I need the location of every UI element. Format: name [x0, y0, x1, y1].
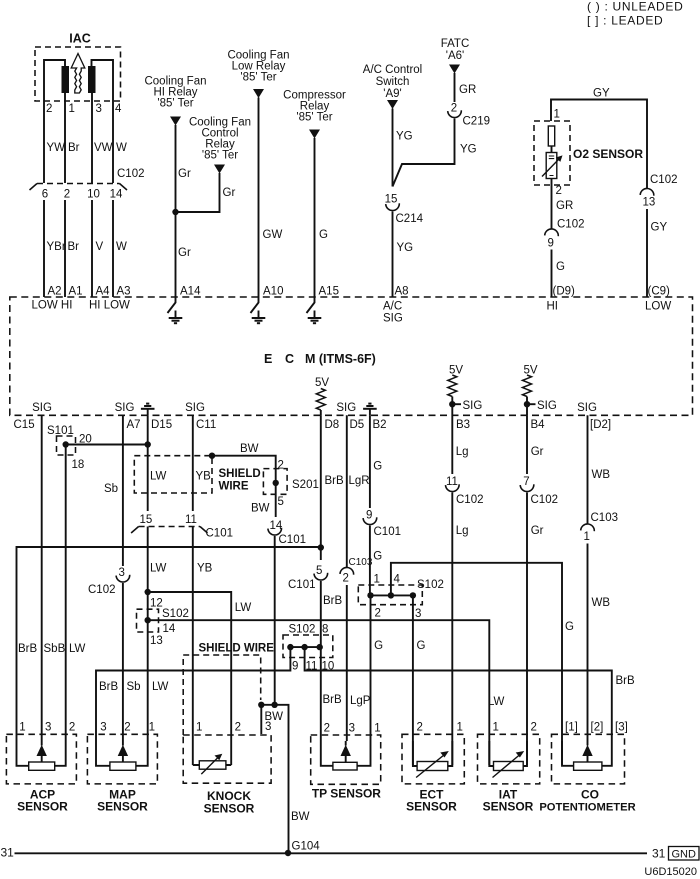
junction Gr wires: [172, 209, 178, 215]
svg-text:3: 3: [96, 103, 102, 115]
wire color Sb: [104, 483, 118, 495]
ECT sensor box: [402, 734, 464, 784]
S201 pin 5: [278, 496, 284, 508]
CO pot pin 1: [565, 722, 578, 734]
ECM pin (D9): [553, 286, 576, 298]
wire YG from A/C switch: [392, 109, 394, 187]
svg-text:2: 2: [451, 103, 457, 115]
svg-text:S102: S102: [162, 608, 189, 620]
IAC pin 4: [115, 103, 122, 115]
wire GR from FATC: [454, 73, 456, 102]
svg-text:BrB: BrB: [323, 595, 343, 607]
wire YG from C214 to A8: [392, 212, 394, 298]
svg-text:A10: A10: [263, 286, 283, 298]
junction S102-11: [301, 644, 307, 650]
wire color BrB (CO): [616, 675, 636, 687]
IAT sensor pin 1: [493, 722, 499, 734]
splice S101 label: [47, 425, 74, 437]
junction D15/S101-20: [145, 441, 151, 447]
wire LgP C103-2 to TP pin 3: [346, 585, 348, 741]
wire shield stub to knock box: [260, 705, 262, 734]
ECM pin (C9): [648, 286, 671, 298]
wire Lg from B3: [451, 415, 453, 474]
connector C101 inline: [131, 527, 207, 534]
connector C219: [448, 110, 462, 117]
wire color YG to A8: [397, 242, 414, 254]
svg-text:14: 14: [163, 623, 176, 635]
wire color Br: [68, 142, 80, 154]
svg-text:C101: C101: [374, 526, 402, 538]
Cooling Fan Low Relay text: [227, 50, 289, 62]
ECM D5 SIG: [336, 402, 356, 414]
svg-text:A2: A2: [48, 286, 62, 298]
C102 pin 2: [64, 189, 70, 201]
wire W to ECM A3: [112, 200, 114, 297]
svg-text:C102: C102: [456, 494, 484, 506]
splice S201 label: [292, 479, 319, 491]
shield box around knock wires: [183, 655, 261, 735]
connector C219 pin 2: [451, 103, 457, 115]
ACP sensor element: [17, 741, 66, 770]
IAC label: [69, 32, 91, 46]
wire color LW (MAP): [152, 681, 169, 693]
junction S102-4: [388, 592, 394, 598]
wire YG from C219 to junction: [393, 119, 455, 187]
ECM title: [264, 352, 272, 366]
svg-text:2: 2: [531, 722, 537, 734]
svg-text:2: 2: [46, 103, 52, 115]
ECM C15 SIG: [32, 402, 52, 414]
svg-text:LOW HI: LOW HI: [32, 300, 73, 312]
svg-text:CO: CO: [581, 788, 599, 802]
svg-text:11: 11: [446, 476, 458, 488]
ECM module box: [10, 297, 693, 415]
wire color G (B2): [373, 461, 382, 473]
svg-text:(D9): (D9): [553, 286, 576, 298]
ECM D2 SIG: [577, 402, 597, 414]
ground inside ECM at A14: [168, 297, 183, 323]
junction S102-LW: [145, 617, 151, 623]
ECT sensor element: [413, 741, 452, 778]
arrow from Compressor Relay: [309, 130, 320, 139]
svg-text:'A9': 'A9': [383, 88, 401, 100]
wire color LW (IAT): [488, 696, 505, 708]
TP sensor pin 2: [324, 723, 330, 735]
splice S102 label (LW): [162, 608, 189, 620]
wire color LW (knock): [235, 602, 252, 614]
wire color GW: [263, 229, 283, 241]
svg-text:GR: GR: [459, 84, 476, 96]
O2 sensor box: [534, 121, 570, 185]
svg-text:LgR: LgR: [349, 475, 370, 487]
wire BrB C101-5 to TP pin 2: [320, 581, 322, 741]
5V supply at B3: [449, 365, 463, 377]
svg-text:HI LOW: HI LOW: [89, 300, 130, 312]
svg-text:'85' Ter: '85' Ter: [240, 72, 276, 84]
IAT sensor pin 2: [531, 722, 537, 734]
wire color BrB below C101: [323, 595, 343, 607]
svg-text:LW: LW: [150, 471, 167, 483]
wire color YB below C101: [197, 563, 213, 575]
svg-text:U6D15020: U6D15020: [644, 866, 697, 878]
MAP sensor pin 2: [124, 722, 130, 734]
ECM pin A1: [69, 286, 83, 298]
wire color G (ECT): [417, 640, 426, 652]
svg-text:9: 9: [366, 510, 372, 522]
wire color G (O2 HI): [556, 261, 565, 273]
connector C101 label: [206, 528, 234, 540]
GND box: [669, 847, 700, 861]
connector C101 pin 11: [185, 514, 197, 526]
svg-text:A8: A8: [395, 286, 409, 298]
svg-text:15: 15: [140, 514, 153, 526]
wire color SbB: [44, 643, 66, 655]
svg-text:Lg: Lg: [456, 525, 469, 537]
knock sensor box: [183, 735, 271, 783]
ECM pin D8: [325, 419, 340, 431]
svg-text:YB: YB: [196, 471, 212, 483]
svg-text:Gr: Gr: [531, 525, 544, 537]
C102 pin 6: [42, 189, 48, 201]
CO POTENTIOMETER label: [581, 788, 599, 802]
Cooling Fan Control Relay text: [189, 117, 251, 129]
wire LW S102-14 to IAT pin 1: [148, 620, 490, 765]
ECM pin A3: [117, 286, 131, 298]
svg-text:M (ITMS-6F): M (ITMS-6F): [305, 352, 376, 366]
MAP sensor element: [96, 741, 148, 770]
wire Gr C102-7 to IAT pin 2: [526, 493, 528, 766]
O2 sensor heater resistor: [548, 126, 554, 153]
svg-text:LW: LW: [150, 563, 167, 575]
Cooling Fan HI Relay text: [144, 76, 206, 88]
svg-text:SIG: SIG: [336, 402, 356, 414]
ECT SENSOR label: [420, 788, 445, 802]
svg-text:5: 5: [316, 565, 322, 577]
svg-text:1: 1: [554, 109, 560, 121]
svg-text:2: 2: [124, 722, 130, 734]
svg-text:'85' Ter: '85' Ter: [296, 112, 332, 124]
connector C101 (BW): [268, 528, 282, 535]
ECM pin B2: [373, 419, 387, 431]
svg-text:S201: S201: [292, 479, 319, 491]
wire color W 2: [116, 241, 127, 253]
wire color Gr below C102: [531, 525, 544, 537]
svg-text:Switch: Switch: [376, 76, 410, 88]
svg-text:B3: B3: [456, 419, 470, 431]
svg-text:Gr: Gr: [531, 446, 544, 458]
wire YB C101-11 to knock pin 1: [192, 527, 194, 766]
wire color BrB (D8): [325, 475, 345, 487]
svg-text:13: 13: [150, 635, 163, 647]
svg-text:HI: HI: [547, 301, 559, 313]
wire color Gr (HI relay): [178, 168, 191, 180]
wire BrB right bus to CO pin 3: [305, 647, 612, 741]
wire IAC-4 to C102-14: [112, 101, 114, 183]
wire color GR (FATC): [459, 84, 476, 96]
wire color YBr: [47, 241, 66, 253]
svg-text:A/C Control: A/C Control: [363, 64, 422, 76]
5V supply at B4: [523, 365, 537, 377]
svg-text:G: G: [319, 229, 328, 241]
wire GR from O2 pin 2: [551, 179, 553, 229]
connector C102 pin 9 (O2): [545, 229, 559, 236]
svg-text:[D2]: [D2]: [590, 419, 611, 431]
ACP sensor pin 3: [45, 722, 51, 734]
wire B4 SIG tick: [527, 403, 536, 405]
ECM pin A4: [96, 286, 111, 298]
diagram number U6D15020: [644, 866, 697, 878]
wire color BW (drain): [240, 443, 259, 455]
splice S102 label (G): [417, 579, 444, 591]
svg-text:SIG: SIG: [537, 400, 557, 412]
wire Lg C102-11 to ECT pin 1: [451, 493, 453, 766]
wire color G (TP): [374, 640, 383, 652]
ECM pin B4: [531, 419, 546, 431]
connector C101 (BrB): [314, 573, 328, 580]
connector C103 pin 1: [581, 524, 595, 531]
svg-text:1: 1: [457, 722, 463, 734]
MAP sensor pin 3: [100, 722, 106, 734]
wire color G (CO): [565, 621, 574, 633]
svg-text:D5: D5: [350, 419, 365, 431]
svg-text:O2 SENSOR: O2 SENSOR: [573, 147, 643, 161]
C102 pin 10: [87, 189, 100, 201]
svg-text:A3: A3: [117, 286, 131, 298]
svg-text:2: 2: [343, 573, 349, 585]
wire color LW (ACP): [69, 643, 86, 655]
svg-text:G: G: [565, 621, 574, 633]
svg-text:2: 2: [64, 189, 70, 201]
wire color Lg below C102: [456, 525, 469, 537]
internal ground above B2: [363, 404, 377, 416]
arrow from Cooling Fan Low Relay: [253, 89, 264, 98]
svg-text:C102: C102: [557, 219, 585, 231]
wire color YG (C219): [460, 144, 477, 156]
svg-text:'85' Ter: '85' Ter: [157, 98, 193, 110]
connector C102 (B3): [446, 484, 460, 491]
svg-text:TP SENSOR: TP SENSOR: [312, 787, 381, 801]
arrow from A/C Control Switch: [387, 100, 398, 109]
CO potentiometer box: [552, 734, 625, 784]
svg-text:11: 11: [185, 514, 197, 526]
svg-text:YG: YG: [397, 242, 414, 254]
wire BrB bus ACP pin1 to TP BrB: [17, 547, 321, 741]
splice S201 box: [263, 469, 287, 495]
svg-text:SENSOR: SENSOR: [97, 800, 148, 814]
ACP SENSOR label: [30, 788, 55, 802]
TP sensor element: [321, 741, 371, 770]
svg-text:E: E: [264, 352, 272, 366]
svg-text:1: 1: [584, 531, 590, 543]
svg-text:C219: C219: [463, 116, 491, 128]
splice S102 label (BrB): [289, 624, 316, 636]
wire Gr Control Relay to junction: [176, 173, 220, 212]
ECM A8 function A/C SIG: [383, 301, 402, 313]
connector C102 label (IAC): [117, 168, 145, 180]
svg-text:WIRE: WIRE: [219, 481, 249, 493]
ECM B3 SIG: [463, 400, 483, 412]
C102 pin 9: [548, 238, 554, 250]
svg-text:YBr: YBr: [47, 241, 66, 253]
svg-text:SHIELD WIRE: SHIELD WIRE: [199, 643, 275, 655]
junction S102-9: [287, 644, 293, 650]
IAC actuator box: [35, 47, 121, 101]
ECM pin A7: [127, 419, 141, 431]
wire color V: [96, 241, 104, 253]
ECM pin [D2]: [590, 419, 611, 431]
connector C102 (B4): [520, 484, 534, 491]
wire D8 stub: [320, 410, 322, 415]
junction S102-10: [317, 644, 323, 650]
svg-text:3: 3: [265, 721, 271, 733]
wire IAC pin4 internal: [92, 60, 114, 101]
wire BrB left bus to MAP pin 3: [96, 647, 290, 741]
svg-text:A4: A4: [96, 286, 111, 298]
svg-text:V: V: [96, 241, 104, 253]
svg-text:BW: BW: [291, 811, 310, 823]
junction B4 5V/SIG: [524, 401, 530, 407]
svg-text:(C9): (C9): [648, 286, 671, 298]
wire color Br 2: [68, 241, 80, 253]
wire color YB (shielded): [196, 471, 212, 483]
resistor 5V pullup B4: [523, 375, 532, 397]
wire color BW to G104: [291, 811, 310, 823]
legend leaded note: [587, 14, 663, 28]
svg-text:[3]: [3]: [615, 722, 628, 734]
svg-text:Gr: Gr: [178, 168, 191, 180]
wire LW S101-18 to ACP pin 2: [65, 445, 67, 742]
wire G S102-2 to TP pin 1: [370, 595, 372, 741]
ECM pin C11: [196, 419, 216, 431]
svg-text:A15: A15: [319, 286, 339, 298]
svg-text:IAC: IAC: [69, 32, 91, 46]
svg-text:3: 3: [45, 722, 51, 734]
svg-text:5V: 5V: [315, 377, 329, 389]
wire S102 internal link: [290, 646, 319, 648]
wire color YW: [47, 142, 66, 154]
junction BrB bus at D8 wire: [318, 544, 324, 550]
wire color LgP: [350, 695, 371, 707]
svg-text:D15: D15: [151, 419, 172, 431]
junction S102-3: [410, 592, 416, 598]
svg-text:C101: C101: [206, 528, 234, 540]
junction G104: [285, 850, 291, 856]
connector C101 pin 14: [270, 520, 283, 532]
S102 pin 4: [394, 574, 401, 586]
ECM pin B3: [456, 419, 470, 431]
svg-text:12: 12: [150, 598, 163, 610]
S102 pin 2: [375, 608, 381, 620]
splice S102 box (G): [358, 585, 422, 605]
svg-text:[ ] : LEADED: [ ] : LEADED: [587, 14, 663, 28]
connector C101 label (BW): [279, 534, 307, 546]
svg-text:SENSOR: SENSOR: [483, 800, 534, 814]
svg-text:C102: C102: [117, 168, 145, 180]
A/C Control Switch text: [363, 64, 422, 76]
svg-text:1: 1: [19, 722, 25, 734]
svg-text:13: 13: [643, 197, 656, 209]
S101 pin 20: [79, 434, 92, 446]
C103 pin 2: [343, 573, 349, 585]
wire color YG (A9): [396, 131, 413, 143]
wire color Lg (B3): [456, 446, 469, 458]
svg-text:SIG: SIG: [32, 402, 52, 414]
svg-text:VW: VW: [94, 142, 113, 154]
svg-text:5: 5: [278, 496, 284, 508]
connector C102 label (B3): [456, 494, 484, 506]
wire Gr from B4: [526, 415, 528, 474]
ECM pin A15: [319, 286, 339, 298]
svg-text:YW: YW: [47, 142, 66, 154]
svg-text:SHIELD: SHIELD: [219, 468, 261, 480]
svg-text:BrB: BrB: [18, 643, 38, 655]
wire BW C101-14 to knock shield: [274, 536, 276, 705]
ECM pin A10: [263, 286, 283, 298]
connector C102 inline (IAC): [30, 184, 128, 191]
IAC coil winding right: [88, 66, 96, 93]
svg-text:G: G: [417, 640, 426, 652]
wire color G (compressor): [319, 229, 328, 241]
connector C103 pin 2: [340, 567, 354, 574]
connector C101 label (B2): [374, 526, 402, 538]
ECM D9 function HI: [547, 301, 559, 313]
svg-text:14: 14: [110, 189, 123, 201]
wire LgR from D5: [346, 415, 348, 567]
wire color Gr to A14: [178, 247, 191, 259]
wire GY from C102-13 to C9: [646, 209, 648, 297]
svg-text:Sb: Sb: [127, 681, 141, 693]
wire color Gr (B4): [531, 446, 544, 458]
connector C101 pin 9: [366, 510, 372, 522]
ground inside ECM at A10: [251, 297, 266, 323]
svg-text:BW: BW: [240, 443, 259, 455]
legend unleaded note: [587, 0, 683, 14]
ECM A4/A3 function HI LOW: [89, 300, 130, 312]
ECT sensor pin 2: [417, 722, 423, 734]
MAP SENSOR label: [109, 788, 136, 802]
ECM pin A2: [48, 286, 62, 298]
wire color BrB (TP): [323, 694, 343, 706]
MAP sensor box: [87, 734, 157, 784]
ground bus 31 label left: [1, 846, 15, 860]
svg-text:SENSOR: SENSOR: [17, 800, 68, 814]
connector C214 pin 15: [385, 194, 398, 206]
svg-text:Sb: Sb: [104, 483, 118, 495]
svg-text:A1: A1: [69, 286, 83, 298]
wire V to ECM A4: [91, 200, 93, 297]
wire SbB C15 to ACP pin 3: [41, 415, 43, 741]
IAC pin 1: [69, 103, 75, 115]
connector C102 (A7): [116, 575, 130, 582]
wire color GR (O2): [556, 200, 573, 212]
connector C101 pin 15: [140, 514, 153, 526]
svg-text:( ) : UNLEADED: ( ) : UNLEADED: [587, 0, 683, 14]
svg-text:YG: YG: [460, 144, 477, 156]
wire B3 stub: [451, 397, 453, 416]
svg-text:2: 2: [417, 722, 423, 734]
wire color BW below S201: [251, 503, 270, 515]
wire LW from D15: [147, 415, 149, 511]
svg-text:G: G: [556, 261, 565, 273]
S101 pin 18: [72, 459, 85, 471]
svg-text:1: 1: [149, 722, 155, 734]
svg-text:SIG: SIG: [115, 402, 135, 414]
connector C102 pin 13: [640, 188, 654, 195]
svg-text:WB: WB: [592, 597, 611, 609]
svg-text:GND: GND: [672, 849, 697, 861]
splice S102 box (LW): [137, 609, 159, 632]
wire YB from C11: [192, 415, 194, 511]
